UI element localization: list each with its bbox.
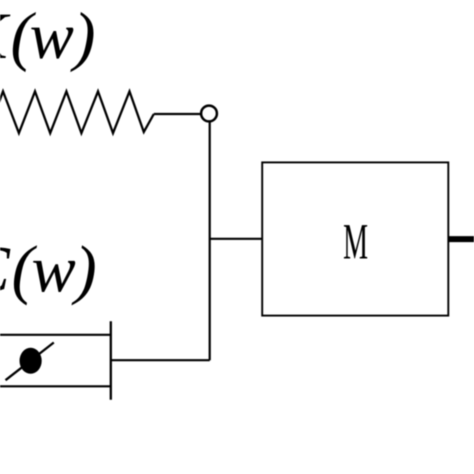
label C(w): close paren	[72, 245, 95, 305]
damper piston plate	[110, 321, 112, 400]
label K(w): open paren	[13, 12, 36, 72]
label C(w): open paren	[14, 245, 37, 305]
spring K zigzag	[0, 91, 154, 133]
damper rod	[111, 359, 210, 361]
damper diagonal stroke	[6, 343, 54, 381]
damper cylinder bottom wall	[0, 385, 111, 387]
wire spring to pivot circle	[154, 113, 202, 115]
label K(w): letter w	[31, 28, 73, 59]
label M	[344, 225, 367, 258]
label K(w): close paren	[70, 12, 93, 72]
pivot circle node	[201, 106, 217, 122]
mass M box	[262, 162, 448, 315]
damper cylinder top wall	[0, 334, 111, 336]
label K(w): letter K (clipped at left edge)	[0, 15, 10, 58]
label C(w): letter w	[33, 261, 75, 292]
label C(w): letter C (clipped at left edge)	[0, 247, 10, 292]
wire vertical bus	[209, 121, 211, 360]
damper fill ellipse	[20, 348, 42, 374]
thick output shaft	[448, 236, 474, 242]
wire bus to mass	[210, 238, 263, 240]
